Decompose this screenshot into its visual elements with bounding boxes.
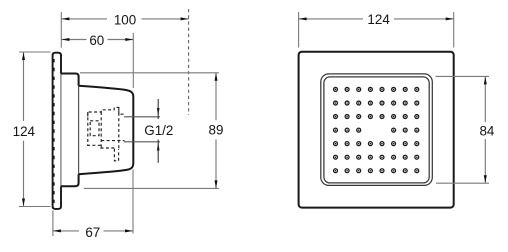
- svg-text:67: 67: [85, 225, 100, 240]
- left view: collar top: [61, 74, 79, 86]
- dimension 84: line and arrows: [484, 76, 487, 183]
- right view: outer square plate: [299, 52, 454, 208]
- left view: wall plate outline (side profile): [53, 53, 61, 209]
- left view: plate front edge behind collar: [60, 74, 62, 187]
- svg-text:89: 89: [209, 123, 224, 138]
- dimension 124 left: line and arrows: [22, 52, 25, 207]
- svg-text:84: 84: [479, 124, 494, 139]
- dimension 100: line and arrows: [61, 17, 188, 20]
- dimension 84: extension lines: [436, 76, 490, 183]
- dimension 89: extension lines: [80, 73, 219, 189]
- dimension 89: line and arrows: [215, 73, 218, 189]
- left view: collar bottom: [61, 174, 79, 186]
- svg-text:60: 60: [89, 33, 104, 48]
- dimension 124 top: line and arrows: [299, 17, 454, 20]
- left view: collar edge behind body: [78, 86, 80, 174]
- left view: G1/2 leader arrows: [157, 99, 160, 163]
- svg-text:100: 100: [114, 12, 136, 27]
- svg-text:124: 124: [367, 12, 390, 27]
- dimension 124 top: extension lines: [299, 12, 454, 48]
- svg-text:G1/2: G1/2: [144, 123, 173, 138]
- right view: nozzle grid: [334, 87, 419, 172]
- dimension 67: line and arrows: [53, 229, 133, 232]
- right view: spray face inner line: [324, 77, 429, 183]
- dimension 60: extension line right: [132, 33, 134, 88]
- svg-text:124: 124: [13, 124, 36, 139]
- dimension 60: line and arrows: [61, 38, 133, 41]
- left view: wall plane dashed line: [188, 9, 190, 115]
- dimension 100: extension line: [60, 12, 62, 48]
- left view: G1/2 thread lines: [124, 117, 160, 142]
- dimension 124 left: extension lines: [19, 52, 51, 207]
- left view: plate hidden dashed line: [53, 59, 55, 203]
- left view: body profile: [79, 86, 134, 174]
- right view: spray face outer line: [321, 74, 433, 185]
- left view: hidden inlet detail (dashed): [87, 107, 125, 160]
- dimension 67: extension lines: [53, 170, 133, 237]
